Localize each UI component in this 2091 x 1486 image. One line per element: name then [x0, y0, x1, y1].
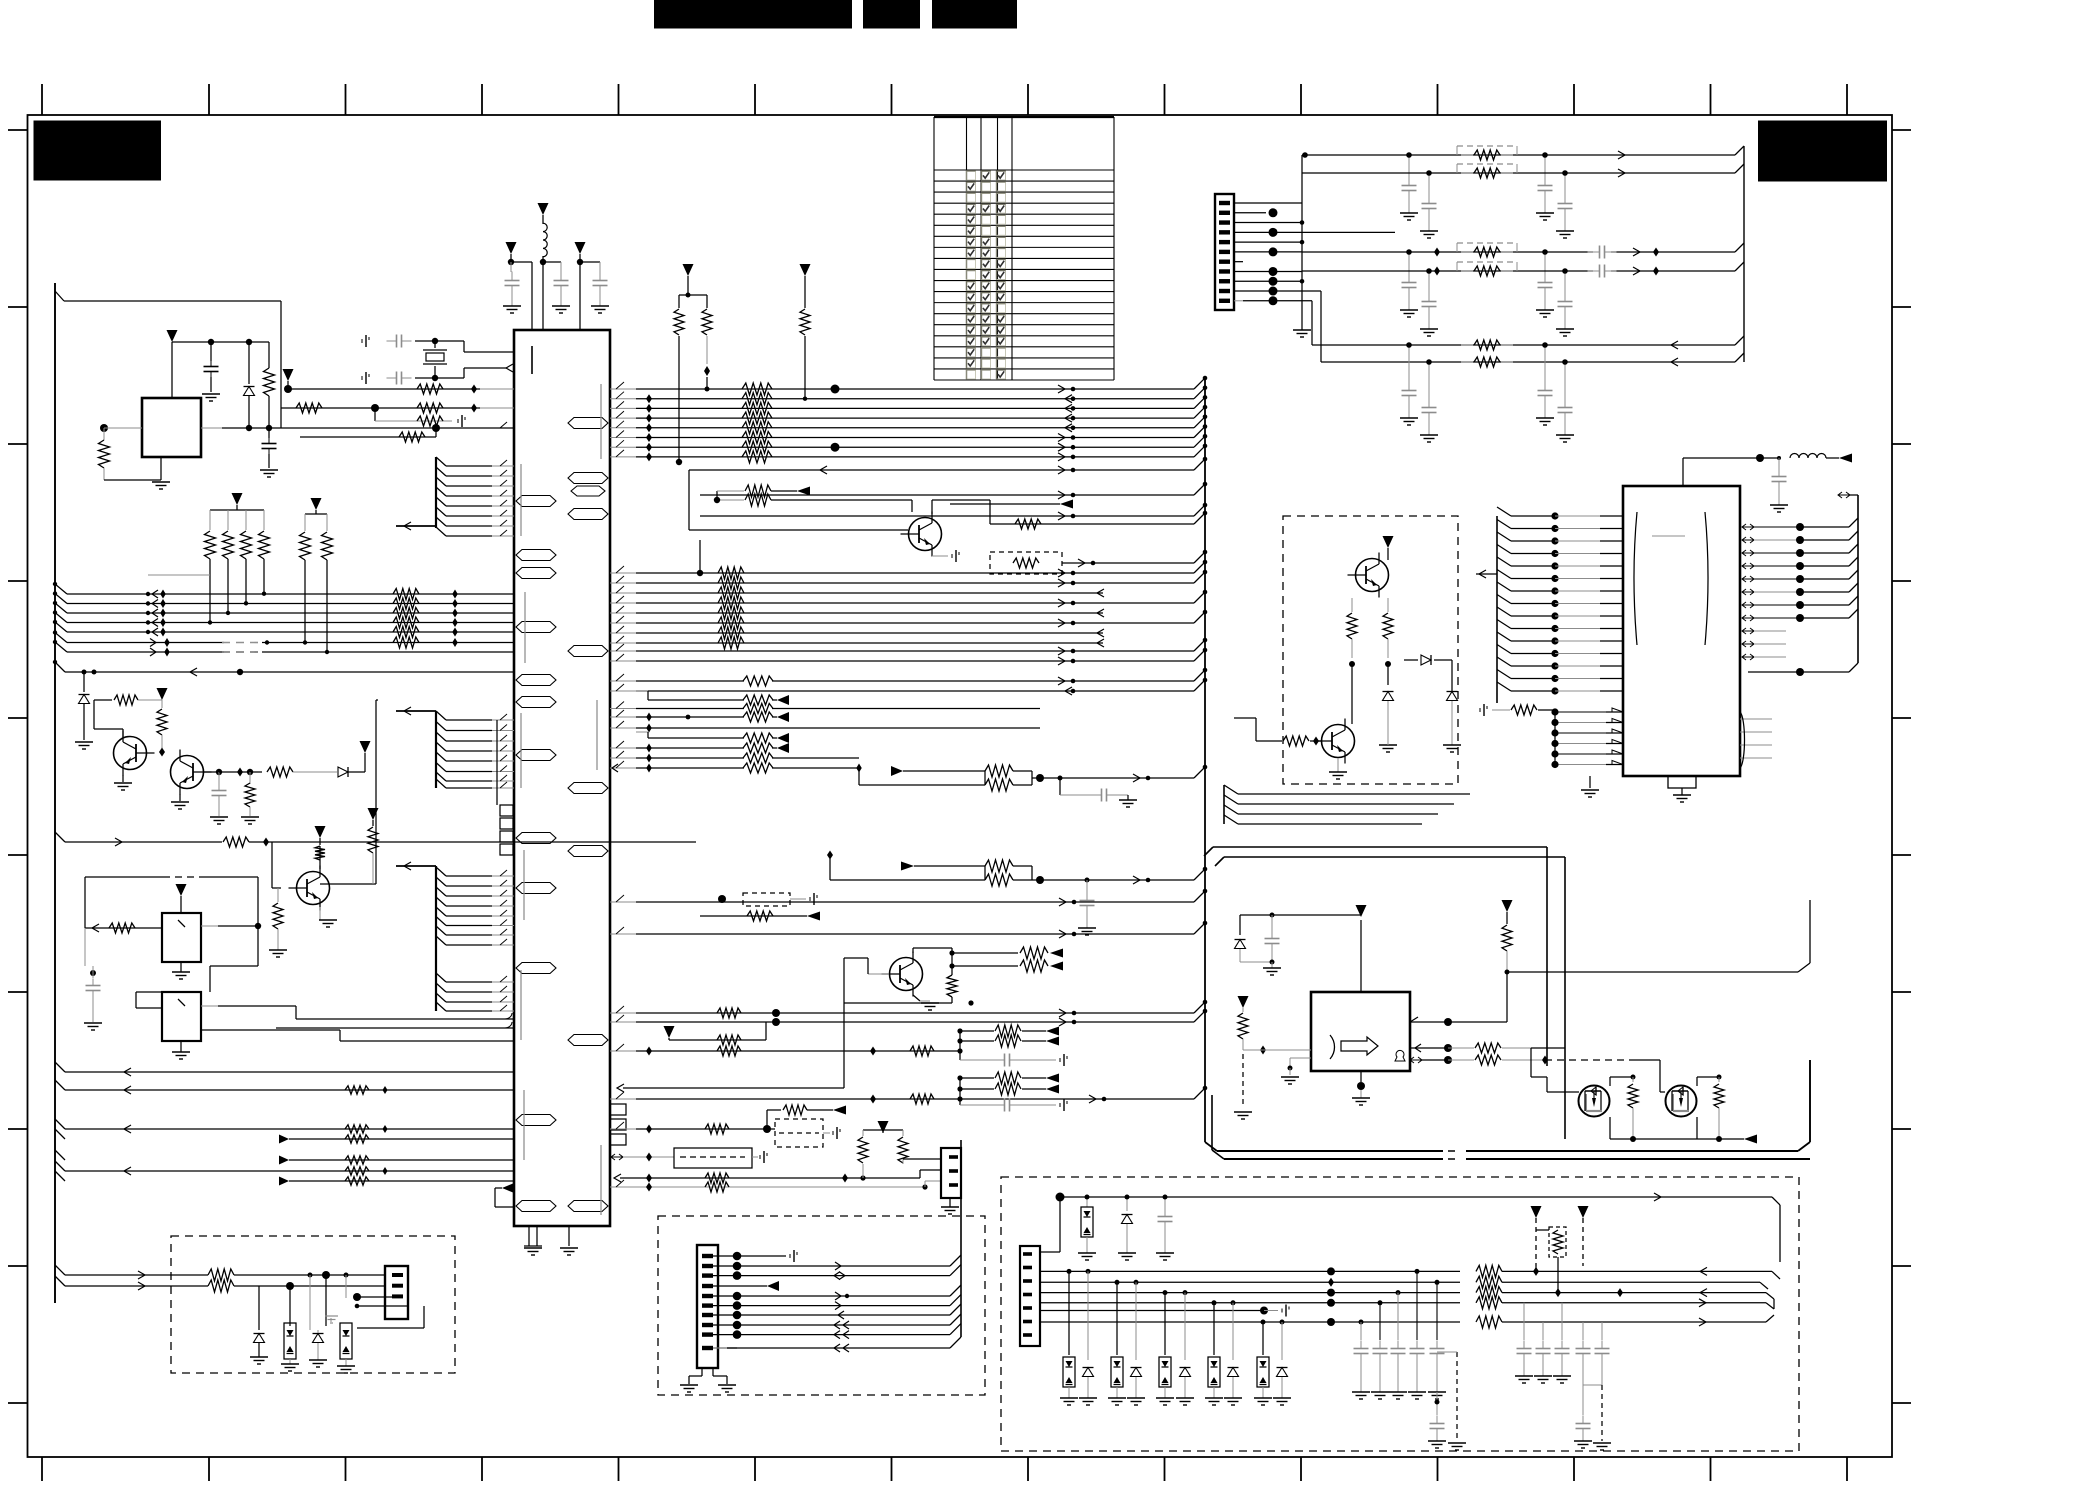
title block bar 2 [863, 0, 920, 29]
U5 left network [1234, 913, 1361, 1120]
U4 left pin fan [1476, 507, 1623, 703]
corner label block left [34, 121, 162, 181]
esd diode box 1 [55, 1236, 455, 1373]
title block bar 3 [932, 0, 1017, 29]
transistor Q4 circuit [689, 457, 1207, 574]
mosfet pair [1531, 1048, 1757, 1144]
bus U1-right group E [0, 0, 1, 1]
bus U1-right group B [610, 540, 1207, 665]
reset rows to U1 [281, 369, 514, 442]
keyboard connector box [658, 1140, 985, 1395]
audio box right [1428, 1206, 1780, 1450]
bus fan F1 [396, 457, 514, 536]
crystal circuit X1 [362, 335, 514, 385]
transistor Q5 circuit [844, 947, 1063, 1088]
option table [934, 117, 1114, 380]
dashed supervisor box [1234, 516, 1461, 784]
arrow clusters [610, 1025, 1207, 1112]
top-right RC filters [1302, 146, 1744, 442]
reset supervisor [99, 330, 515, 489]
wire 672 [53, 660, 514, 676]
ic U1 internal lines [521, 384, 601, 1215]
group A pull resistors [674, 264, 811, 465]
right vertical bus [1205, 378, 1810, 1159]
audio box top [1001, 1177, 1799, 1451]
U4 right pins [1740, 492, 1858, 768]
mid band rows [610, 668, 1207, 773]
audio box bus [1040, 1267, 1460, 1405]
transistor Q3 [55, 700, 696, 957]
title block bar 1 [654, 0, 852, 29]
bus U1-right group A [610, 376, 1207, 463]
U4 supply inductor [1683, 454, 1852, 513]
reset ICs U2 U3 [84, 877, 514, 1059]
bus to U1 left lower [55, 1062, 514, 1186]
corner label block right [1758, 121, 1887, 182]
connector CN2 [858, 1121, 961, 1214]
feedback RC rows [827, 758, 1207, 935]
ic U1 net flags [516, 418, 608, 1212]
U1 left pin boxes [497, 720, 513, 855]
bus U1-right group D [610, 889, 1207, 1045]
bundle below U4 [1224, 776, 1470, 824]
bus fan F3 [396, 862, 514, 1011]
left bus [55, 283, 281, 1303]
U4 left lower pins [1480, 704, 1623, 768]
U1 ground stubs [495, 1184, 578, 1256]
bus fan F2 [396, 707, 514, 788]
bias transistors Q1 Q2 [75, 670, 371, 825]
ir receiver U5 [1311, 905, 1410, 1105]
connector CN1 [1215, 155, 1395, 362]
ic U1 body [514, 330, 610, 1226]
ic U4 body [1623, 486, 1740, 776]
bus to U1 left upper [53, 582, 514, 657]
U5 right wiring [1410, 900, 1810, 1065]
U4 bottom ground [1581, 776, 1696, 802]
U1 bottom-right rows [610, 1104, 941, 1192]
loop wires [1204, 847, 1565, 1139]
power rails above U1 [503, 203, 609, 330]
pull-up resistor ladder [148, 493, 333, 654]
